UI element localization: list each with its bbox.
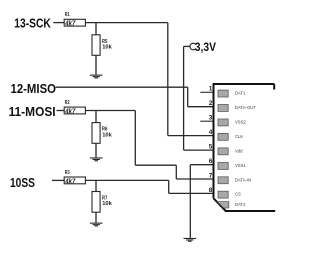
wire SS to corner — [85, 179, 168, 181]
wire R7 stem bottom — [95, 212, 97, 222]
wire R7 stem top — [95, 180, 97, 191]
wire MOSI to corner — [85, 110, 135, 112]
resistor R7 10k — [92, 192, 113, 213]
svg-text:DAT2: DAT2 — [235, 202, 246, 207]
wire MISO horizontal — [56, 86, 188, 88]
wire SS lead — [52, 179, 64, 181]
pad pin 6 — [218, 163, 228, 170]
svg-text:13-SCK: 13-SCK — [14, 15, 51, 30]
svg-text:7: 7 — [209, 172, 213, 179]
wire pin 6 VSS to ground vertical — [190, 164, 213, 166]
svg-text:10SS: 10SS — [10, 175, 35, 190]
resistor R1 4k7 — [64, 12, 85, 27]
resistor R5 10k — [92, 35, 113, 56]
wire to pin 5 Vdd — [184, 149, 214, 151]
ground below R5 — [90, 75, 103, 79]
pin 3 stub — [200, 120, 213, 122]
svg-text:2: 2 — [209, 100, 213, 107]
pad pin 1 — [218, 90, 228, 97]
wire SCK vertical — [167, 23, 169, 136]
wire R6 stem top — [95, 111, 97, 123]
wire MOSI lead — [57, 110, 65, 112]
svg-text:VSS2: VSS2 — [235, 120, 246, 125]
svg-text:10k: 10k — [102, 45, 112, 51]
svg-text:5: 5 — [209, 144, 213, 151]
pin 1 stub — [200, 91, 213, 93]
wire to pin 7 DATA-IN — [176, 178, 213, 180]
SD card connector outline — [213, 84, 276, 211]
pad pin 7 — [218, 177, 228, 184]
wire SS vertical — [168, 180, 170, 193]
svg-text:12-MISO: 12-MISO — [11, 81, 57, 96]
svg-text:DATA-IN: DATA-IN — [235, 177, 251, 182]
svg-text:CLK: CLK — [235, 134, 243, 139]
svg-text:R2: R2 — [65, 100, 70, 106]
svg-text:4k7: 4k7 — [64, 178, 76, 185]
svg-text:10k: 10k — [102, 132, 112, 138]
svg-text:R3: R3 — [65, 170, 70, 176]
pad pin 8 — [218, 191, 228, 198]
wire 3,3V vertical — [183, 46, 185, 150]
resistor R2 4k7 — [64, 100, 85, 115]
wire 3,3V lead — [184, 45, 190, 47]
svg-text:10k: 10k — [102, 201, 112, 207]
wire SCK to corner — [85, 22, 167, 24]
pad pin 2 — [218, 105, 228, 112]
pin pads 1-8 — [217, 90, 229, 208]
wire R5 stem top — [95, 23, 97, 35]
svg-text:8: 8 — [209, 187, 213, 194]
svg-text:R1: R1 — [65, 12, 70, 18]
svg-text:4: 4 — [209, 129, 213, 136]
resistor R3 4k7 — [64, 170, 85, 185]
pin numbers — [209, 86, 213, 194]
svg-text:DATA-OUT: DATA-OUT — [235, 105, 256, 110]
svg-text:DAT1: DAT1 — [235, 91, 246, 96]
wire R5 stem bottom — [95, 55, 97, 75]
ground below R6 — [90, 157, 103, 161]
pin name labels — [235, 91, 256, 208]
svg-text:Vdd: Vdd — [235, 148, 243, 153]
svg-text:4k7: 4k7 — [64, 108, 76, 115]
pad pin 5 — [218, 148, 228, 155]
wire ground vertical — [189, 165, 191, 238]
pad pin 3 — [218, 119, 228, 126]
pad pin 4 — [218, 133, 228, 140]
svg-text:6: 6 — [209, 158, 213, 165]
wire R6 stem bottom — [95, 143, 97, 157]
svg-text:3,3V: 3,3V — [195, 42, 216, 54]
wire to pin 8 CS — [169, 192, 214, 194]
svg-text:CS: CS — [235, 192, 241, 197]
svg-text:VSS1: VSS1 — [235, 163, 246, 168]
wire to pin 2 DATA-OUT — [188, 106, 214, 108]
svg-text:1: 1 — [209, 86, 213, 93]
svg-text:3: 3 — [209, 115, 213, 122]
wire MOSI vertical 2 — [175, 165, 177, 179]
ground below R7 — [90, 223, 103, 227]
wire SCK lead — [53, 22, 64, 24]
ground main — [184, 238, 197, 242]
pad pin 9 DAT2 — [217, 202, 229, 208]
resistor R6 10k — [92, 123, 113, 144]
wire CLK to pin 4 — [168, 135, 214, 137]
svg-text:11-MOSI: 11-MOSI — [9, 104, 56, 119]
wire MOSI horizontal 2 — [135, 164, 176, 166]
wire MOSI vertical — [134, 111, 136, 166]
wire MISO vertical jog — [187, 87, 189, 107]
supply 3,3V symbol — [190, 42, 216, 54]
svg-text:4k7: 4k7 — [64, 21, 76, 28]
